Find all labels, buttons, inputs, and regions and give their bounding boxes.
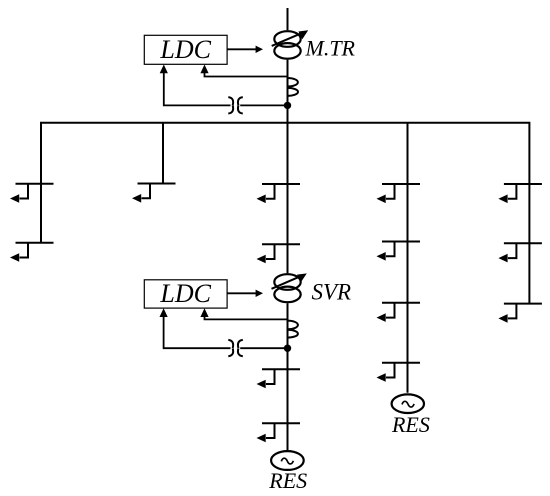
CT coil on main line (SVR) (288, 321, 298, 338)
coupling link symbol (M.TR CT) (228, 97, 243, 113)
tap-changer arrow through M.TR (272, 30, 309, 46)
load arrow F3-L4 (257, 423, 301, 442)
load arrow F1-L1 (10, 184, 54, 203)
load arrow F4-L3 (377, 303, 421, 322)
LDC controller box U1 (for M.TR) (144, 35, 227, 64)
load arrow F5-L3 (498, 304, 542, 323)
wire: incoming feeder from grid (top) (287, 8, 289, 30)
wire: voltage tap to LDC (SVR) with arrowhead (200, 308, 287, 319)
LDC controller box U2 (for SVR) (144, 279, 227, 308)
wire: feeder 2 drop (162, 123, 164, 184)
generator RES (feeder 4) (392, 394, 424, 413)
arrow: LDC output to M.TR (227, 46, 263, 53)
load arrow F4-L4 (377, 363, 421, 382)
SVR step voltage regulator (two windings) (274, 274, 300, 302)
load arrow F4-L1 (377, 184, 421, 203)
wire: main feeder trunk lower (SVR to RES) (287, 303, 289, 450)
arrow: LDC output to SVR (227, 290, 263, 297)
svg-text:LDC: LDC (159, 35, 211, 64)
wire: feeder 4 drop (407, 123, 409, 393)
tap-changer arrow through SVR (272, 273, 307, 288)
transformer M.TR (OLTC, two windings) (274, 31, 300, 59)
wire: current measurement to LDC (M.TR) with arrowhead (160, 65, 288, 106)
svg-text:RES: RES (391, 412, 430, 437)
load arrow F4-L2 (377, 242, 421, 261)
svg-text:LDC: LDC (159, 279, 211, 308)
load arrow F3-L2 (257, 244, 301, 263)
load arrow F3-L1 (257, 184, 301, 203)
load arrow F5-L2 (498, 243, 542, 262)
node: junction dot (SVR measurement point) (284, 345, 291, 352)
load arrow F1-L2 (10, 243, 54, 262)
wire: voltage tap to LDC (M.TR) with arrowhead (200, 65, 287, 77)
load arrow F2-L1 (132, 184, 176, 203)
load arrow F3-L3 (257, 369, 301, 388)
generator RES (main feeder) (271, 451, 304, 470)
coupling link symbol (SVR CT) (228, 340, 243, 356)
svg-text:M.TR: M.TR (305, 36, 356, 61)
svg-text:RES: RES (268, 468, 307, 493)
label RES (main feeder) (268, 468, 307, 493)
wire: distribution bus with feeder 1 and feeder 5 end drops (41, 123, 529, 304)
wire: main feeder trunk upper (transformer to SVR) (287, 60, 289, 274)
label M.TR (305, 36, 356, 61)
load arrow F5-L1 (498, 184, 542, 203)
wire: current measurement to LDC (SVR) with arrowhead (160, 308, 288, 348)
label RES (feeder 4) (391, 412, 430, 437)
label SVR (312, 280, 352, 305)
svg-text:SVR: SVR (312, 280, 352, 305)
CT coil on main line (M.TR) (288, 78, 299, 96)
node: junction dot (M.TR measurement point) (284, 102, 291, 109)
